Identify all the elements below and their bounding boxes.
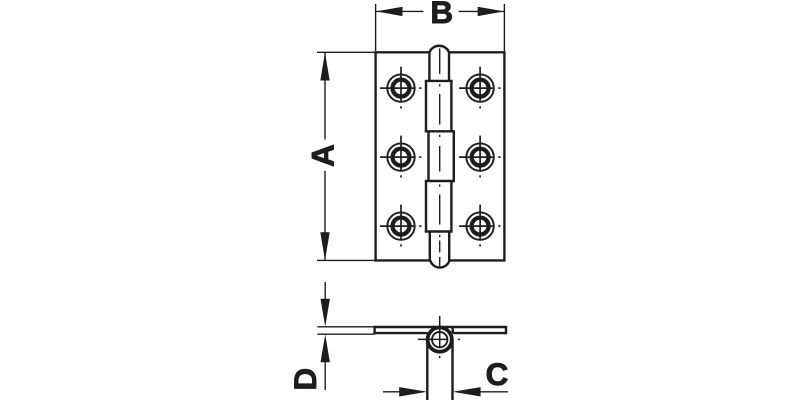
label A bbox=[306, 144, 341, 167]
label D bbox=[288, 368, 323, 391]
dimension D line upper segment bbox=[324, 282, 326, 299]
side view knuckle barrel circle bbox=[428, 328, 452, 352]
pin centerline bbox=[439, 49, 441, 267]
knuckle joint 4 bbox=[425, 230, 453, 232]
side view hanging leaf left edge bbox=[426, 340, 428, 400]
dimension D line lower segment bbox=[324, 362, 326, 390]
dimension A line upper segment bbox=[324, 53, 326, 140]
screw hole bottom-left bbox=[380, 205, 421, 247]
screw hole top-right bbox=[459, 67, 500, 109]
dimension D extension line top bbox=[317, 326, 374, 328]
side view hanging leaf right edge bbox=[451, 340, 453, 400]
dimension A extension line top bbox=[317, 51, 377, 53]
side view leaf seam bbox=[452, 327, 454, 333]
dimension A arrowhead bottom bbox=[320, 232, 329, 260]
svg-text:A: A bbox=[306, 144, 341, 167]
label B bbox=[430, 0, 453, 30]
dimension A extension line bottom bbox=[317, 259, 377, 261]
side view barrel centerline vertical bbox=[439, 316, 441, 358]
dimension B extension line right bbox=[503, 4, 505, 51]
screw hole middle-left bbox=[380, 136, 421, 178]
knuckle pin dome bottom bbox=[430, 260, 449, 267]
side view leaf plate bbox=[375, 326, 506, 335]
dimension D arrowhead lower bbox=[321, 334, 330, 362]
svg-text:C: C bbox=[486, 357, 509, 392]
label C bbox=[486, 357, 509, 392]
dimension C line left segment bbox=[383, 391, 400, 393]
dimension B arrowhead left bbox=[376, 7, 403, 16]
dimension D extension line bottom bbox=[317, 333, 374, 335]
dimension C arrowhead right bbox=[453, 387, 481, 396]
knuckle segment 5 bbox=[430, 232, 449, 261]
dimension C line right segment bbox=[480, 391, 508, 393]
screw hole middle-right bbox=[459, 136, 500, 178]
side view pin circle bbox=[432, 332, 447, 347]
knuckle segment 1 bbox=[429, 52, 449, 81]
hinge leaf outline front view bbox=[374, 52, 505, 260]
knuckle pin dome top bbox=[429, 46, 449, 53]
knuckle segment 3 bbox=[429, 131, 454, 181]
dimension B extension line left bbox=[375, 4, 377, 51]
knuckle joint 3 bbox=[425, 180, 455, 182]
dimension D arrowhead upper bbox=[321, 299, 330, 327]
knuckle joint 1 bbox=[425, 80, 453, 82]
knuckle segment 4 bbox=[426, 181, 451, 232]
dimension B line left segment bbox=[376, 10, 424, 12]
dimension B arrowhead right bbox=[478, 7, 505, 16]
screw hole bottom-right bbox=[459, 205, 500, 247]
dimension A arrowhead top bbox=[320, 53, 329, 81]
side view barrel centerline horizontal bbox=[418, 338, 460, 340]
dimension C arrowhead left bbox=[399, 387, 427, 396]
knuckle segment 2 bbox=[426, 81, 451, 131]
svg-text:B: B bbox=[430, 0, 453, 30]
dimension A line lower segment bbox=[324, 171, 326, 260]
knuckle joint 2 bbox=[425, 130, 455, 132]
svg-text:D: D bbox=[288, 368, 323, 391]
screw hole top-left bbox=[380, 67, 421, 109]
dimension B line right segment bbox=[459, 10, 505, 12]
